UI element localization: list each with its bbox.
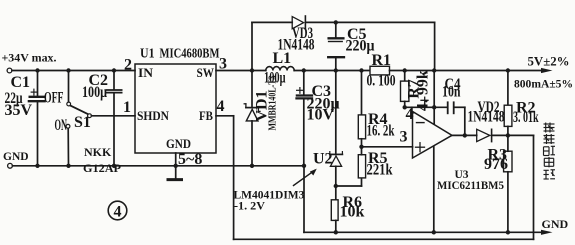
input terminal +34V [7, 68, 12, 73]
node C1 top [35, 68, 39, 72]
node C3 top [302, 68, 306, 72]
node S1 top [66, 68, 70, 72]
gnd arrow right [541, 230, 553, 235]
svg-text:MIC6211BM5: MIC6211BM5 [437, 180, 504, 192]
svg-text:GND: GND [166, 136, 191, 151]
svg-text:IN: IN [138, 65, 154, 80]
wire SW output [216, 70, 266, 72]
capacitor C3 [297, 71, 313, 166]
node R2 top [506, 68, 510, 72]
svg-text:NKK: NKK [84, 145, 112, 159]
svg-text:OFF: OFF [44, 90, 64, 107]
resistor R7 [401, 71, 409, 108]
svg-text:ON: ON [55, 117, 68, 134]
svg-text:16. 2k: 16. 2k [367, 123, 395, 140]
ground pin 5~8 of U1 [168, 153, 182, 180]
svg-text:100μ: 100μ [82, 84, 107, 101]
node U2/R5/R6 [334, 184, 338, 188]
node op-amp V+ [432, 68, 436, 72]
op-amp U3 [413, 112, 453, 159]
node gnd rail end [302, 164, 306, 168]
svg-text:1: 1 [123, 99, 131, 116]
capacitor C1 [29, 71, 45, 166]
wire gnd rail to bottom bus [304, 166, 541, 233]
zener U2 [330, 71, 343, 200]
wire inverting input [405, 106, 448, 108]
node R7 top [403, 68, 407, 72]
node C4 to output [463, 133, 467, 137]
diode VD3 [292, 16, 305, 29]
wire R5 bottom link [336, 178, 362, 186]
svg-text:220μ: 220μ [346, 38, 375, 55]
node R6 bottom [334, 230, 338, 234]
svg-text:GND: GND [542, 217, 569, 231]
node VD1 bottom [250, 164, 254, 168]
svg-text:5V±2%: 5V±2% [528, 55, 570, 69]
node C2 bottom [112, 164, 116, 168]
plus mark supply [421, 97, 428, 103]
svg-text:4: 4 [406, 106, 414, 123]
svg-text:GND: GND [3, 151, 29, 163]
annotation arrow to U2 [294, 169, 317, 186]
svg-text:4. 99k: 4. 99k [415, 70, 432, 111]
node S1 ON bottom [66, 164, 70, 168]
char feng [544, 134, 555, 144]
node R4/R5 pin3 [359, 145, 363, 149]
resistor R3 [504, 135, 512, 232]
svg-text:10k: 10k [340, 204, 365, 221]
svg-text:+34V max.: +34V max. [2, 53, 57, 65]
wire R1 to output arrow [390, 70, 541, 72]
capacitor C4 [448, 102, 465, 135]
diode VD2 [477, 129, 534, 141]
svg-text:3: 3 [400, 129, 408, 146]
wire pin3 [362, 146, 413, 148]
wire top branch (VD3/C5) [252, 22, 435, 70]
svg-text:1N4148: 1N4148 [278, 36, 315, 53]
output arrow 5V [541, 68, 553, 73]
node op-amp gnd [432, 230, 436, 234]
wire op-amp ground pin [433, 147, 435, 232]
svg-text:S1: S1 [74, 114, 91, 131]
char ming [544, 146, 556, 155]
svg-text:0. 100: 0. 100 [367, 73, 396, 90]
ground terminal GND left [8, 163, 13, 168]
switch S1 [66, 71, 91, 166]
svg-text:1N4148: 1N4148 [468, 109, 505, 126]
svg-text:5~8: 5~8 [178, 151, 202, 168]
node VD2/R2/R3 [506, 133, 510, 137]
resistor R5 [358, 147, 365, 178]
label chinese buzzer circuit (drawn glyph blobs) [544, 123, 556, 180]
svg-text:10n: 10n [442, 84, 461, 101]
svg-text:4: 4 [217, 98, 225, 115]
svg-text:4: 4 [114, 204, 122, 221]
svg-text:SW: SW [197, 65, 215, 80]
svg-text:G12AP: G12AP [83, 161, 121, 175]
resistor R6 [331, 200, 338, 233]
wire L1 to R1 [294, 70, 370, 72]
char jie [544, 123, 555, 133]
node C2 top [112, 68, 116, 72]
diode VD1 (catch diode) [244, 71, 260, 166]
circled 4 figure number [108, 201, 127, 220]
node SW / VD1 / VD3 [250, 68, 254, 72]
node V+ crossing [432, 105, 436, 109]
wire FB pin 4 of U1 [216, 116, 534, 240]
char lu [544, 170, 556, 180]
wire FB sense down [533, 135, 535, 239]
wire op-amp V+ supply [433, 71, 435, 124]
svg-text:-1. 2V: -1. 2V [234, 201, 266, 213]
svg-text:U1: U1 [140, 45, 155, 60]
svg-text:R1: R1 [372, 52, 392, 69]
node C5 top [334, 20, 338, 24]
svg-text:SHDN: SHDN [137, 108, 170, 123]
wire ground rail [13, 165, 305, 167]
resistor R1 [370, 66, 390, 75]
op-amp regulator U1 box [135, 64, 216, 153]
node R7 bottom [403, 105, 407, 109]
svg-text:3: 3 [219, 56, 227, 73]
svg-text:800mA±5%: 800mA±5% [514, 77, 573, 91]
inductor L1 [266, 67, 294, 71]
svg-text:C1: C1 [11, 74, 31, 91]
svg-text:221k: 221k [367, 162, 393, 179]
wire op-amp output [452, 134, 477, 136]
svg-text:FB: FB [199, 108, 213, 123]
node C5/U2 top [334, 68, 338, 72]
wire input rail [12, 70, 135, 72]
svg-text:976: 976 [484, 156, 508, 173]
wire S1 pole to SHDN [91, 115, 135, 117]
svg-text:U2: U2 [313, 151, 333, 168]
node R4 top [359, 68, 363, 72]
svg-text:35V: 35V [5, 102, 33, 119]
svg-text:3. 01k: 3. 01k [513, 109, 539, 126]
resistor R4 [358, 71, 365, 147]
svg-text:MMBR140L-T3: MMBR140L-T3 [268, 76, 279, 131]
char dian [544, 157, 553, 167]
node C1 bottom [35, 164, 39, 168]
svg-text:2: 2 [124, 57, 132, 74]
capacitor C5 [328, 22, 344, 70]
resistor R2 [504, 71, 512, 136]
capacitor C2 [106, 71, 122, 166]
node R3 bottom [506, 230, 510, 234]
wire pin4 stub [412, 107, 413, 112]
svg-text:MIC4680BM: MIC4680BM [160, 45, 220, 60]
svg-text:10V: 10V [307, 107, 335, 124]
